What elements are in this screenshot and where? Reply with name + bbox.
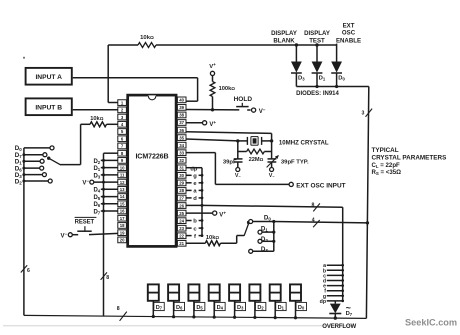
- svg-text:OVERFLOW: OVERFLOW: [322, 324, 356, 330]
- svg-text:3: 3: [362, 110, 365, 116]
- svg-text:12: 12: [120, 180, 125, 185]
- svg-text:31: 31: [179, 166, 184, 171]
- svg-text:b: b: [193, 219, 197, 225]
- svg-text:13: 13: [120, 187, 125, 192]
- svg-text:D6: D6: [176, 305, 183, 311]
- svg-text:29: 29: [179, 181, 184, 186]
- svg-text:D6: D6: [93, 202, 100, 208]
- svg-text:ENABLE: ENABLE: [336, 37, 361, 44]
- svg-text:34: 34: [179, 143, 184, 148]
- svg-text:SeekIC.com: SeekIC.com: [405, 317, 457, 327]
- svg-text:INPUT A: INPUT A: [35, 74, 62, 81]
- svg-text:g: g: [193, 174, 197, 180]
- svg-text:D2: D2: [257, 305, 264, 311]
- svg-text:TEST: TEST: [309, 37, 325, 44]
- svg-text:HOLD: HOLD: [234, 96, 253, 103]
- svg-text:19: 19: [120, 230, 125, 235]
- svg-text:11: 11: [120, 173, 125, 178]
- svg-text:39pF TYP.: 39pF TYP.: [281, 159, 309, 165]
- svg-text:39: 39: [179, 105, 184, 110]
- svg-text:38: 38: [179, 113, 184, 118]
- svg-text:24: 24: [179, 218, 184, 223]
- svg-text:8: 8: [312, 202, 315, 208]
- svg-text:D7: D7: [346, 311, 353, 317]
- svg-text:BLANK: BLANK: [273, 37, 295, 44]
- svg-text:8: 8: [117, 306, 120, 312]
- svg-text:ICM7226B: ICM7226B: [135, 152, 168, 160]
- svg-text:D5: D5: [196, 305, 203, 311]
- svg-text:DIODES: IN914: DIODES: IN914: [296, 91, 339, 97]
- svg-text:V−: V−: [269, 173, 276, 179]
- svg-text:25: 25: [179, 211, 184, 216]
- svg-text:CRYSTAL PARAMETERS: CRYSTAL PARAMETERS: [372, 155, 447, 162]
- svg-text:D5: D5: [93, 195, 100, 201]
- svg-text:OSC: OSC: [342, 30, 356, 37]
- svg-text:D1: D1: [261, 226, 268, 233]
- svg-text:D2: D2: [15, 178, 22, 185]
- svg-text:D1: D1: [93, 166, 100, 172]
- svg-text:EXT OSC INPUT: EXT OSC INPUT: [296, 182, 345, 189]
- svg-text:D3: D3: [261, 246, 268, 253]
- svg-text:D0: D0: [298, 305, 305, 311]
- svg-text:D2: D2: [93, 159, 100, 165]
- svg-text:10: 10: [120, 165, 125, 170]
- svg-text:V−: V−: [235, 173, 242, 179]
- svg-text:D4: D4: [93, 188, 100, 194]
- svg-text:26: 26: [179, 203, 184, 208]
- svg-text:18: 18: [120, 223, 125, 228]
- svg-text:4: 4: [312, 218, 315, 224]
- svg-text:17: 17: [120, 216, 125, 221]
- svg-text:36: 36: [179, 128, 184, 133]
- svg-text:10kΩ: 10kΩ: [140, 35, 154, 41]
- svg-text:DISPLAY: DISPLAY: [271, 30, 297, 37]
- svg-text:28: 28: [179, 188, 184, 193]
- svg-text:D2: D2: [261, 236, 268, 243]
- svg-text:DISPLAY: DISPLAY: [304, 30, 330, 37]
- svg-text:f: f: [194, 234, 196, 240]
- svg-text:dp: dp: [320, 299, 326, 305]
- svg-text:40: 40: [179, 98, 184, 103]
- svg-text:D3: D3: [93, 173, 100, 179]
- svg-text:27: 27: [179, 196, 184, 201]
- svg-text:16: 16: [120, 209, 125, 214]
- svg-text:D0: D0: [264, 215, 271, 222]
- svg-text:37: 37: [179, 120, 184, 125]
- svg-text:23: 23: [179, 226, 184, 231]
- svg-text:D1: D1: [319, 76, 326, 82]
- svg-text:15: 15: [120, 201, 125, 206]
- svg-text:EXT: EXT: [343, 22, 355, 29]
- svg-text:D7: D7: [156, 305, 163, 311]
- svg-text:39pF: 39pF: [223, 159, 237, 165]
- svg-text:32: 32: [179, 158, 184, 163]
- svg-text:21: 21: [179, 241, 184, 246]
- svg-text:INPUT B: INPUT B: [35, 104, 62, 111]
- svg-text:D4: D4: [217, 305, 224, 311]
- svg-text:30: 30: [179, 173, 184, 178]
- svg-text:D3: D3: [298, 76, 305, 82]
- svg-text:D0: D0: [338, 76, 345, 82]
- svg-text:8: 8: [106, 275, 109, 281]
- svg-text:14: 14: [120, 194, 125, 199]
- svg-text:33: 33: [179, 150, 184, 155]
- svg-text:d: d: [193, 196, 197, 202]
- svg-text:CL = 22pF: CL = 22pF: [372, 162, 401, 169]
- svg-text:6: 6: [27, 268, 30, 274]
- svg-text:RS = <35Ω: RS = <35Ω: [372, 169, 402, 176]
- svg-text:20: 20: [120, 238, 125, 243]
- svg-text:RESET: RESET: [75, 220, 95, 226]
- svg-text:22: 22: [179, 233, 184, 238]
- svg-text:D1: D1: [278, 305, 285, 311]
- svg-text:35: 35: [179, 135, 184, 140]
- svg-text:TYPICAL: TYPICAL: [372, 147, 399, 154]
- svg-text:10MHZ CRYSTAL: 10MHZ CRYSTAL: [279, 140, 329, 147]
- svg-text:D3: D3: [237, 305, 244, 311]
- svg-text:D7: D7: [93, 209, 100, 215]
